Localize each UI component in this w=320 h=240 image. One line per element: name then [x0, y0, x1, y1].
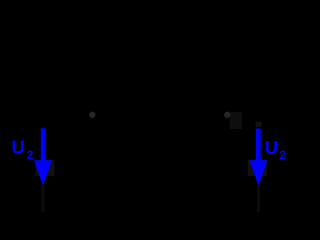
svg-text:U: U [12, 137, 25, 158]
svg-text:U: U [265, 137, 278, 158]
svg-text:2: 2 [27, 148, 34, 162]
svg-text:2: 2 [280, 148, 287, 162]
